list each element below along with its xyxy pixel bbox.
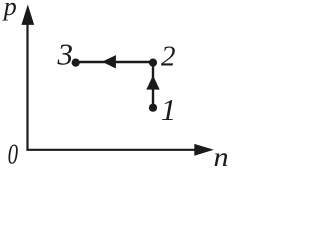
node 3 <box>72 59 80 67</box>
wire 2-3 (horizontal process line) <box>76 61 153 63</box>
svg-text:p: p <box>2 0 17 21</box>
n-axis (horizontal) <box>26 144 213 156</box>
node 2 <box>149 59 157 67</box>
svg-text:n: n <box>214 142 229 168</box>
wire 1-2 (vertical process line) <box>152 62 154 107</box>
arrowhead up (1 to 2) <box>146 75 159 89</box>
svg-text:2: 2 <box>161 40 176 72</box>
node 1 <box>149 104 157 112</box>
svg-text:1: 1 <box>161 92 177 127</box>
arrowhead left (2 to 3) <box>102 55 116 68</box>
p-axis (vertical) <box>21 5 34 151</box>
svg-text:3: 3 <box>57 36 74 71</box>
svg-text:0: 0 <box>8 138 19 168</box>
